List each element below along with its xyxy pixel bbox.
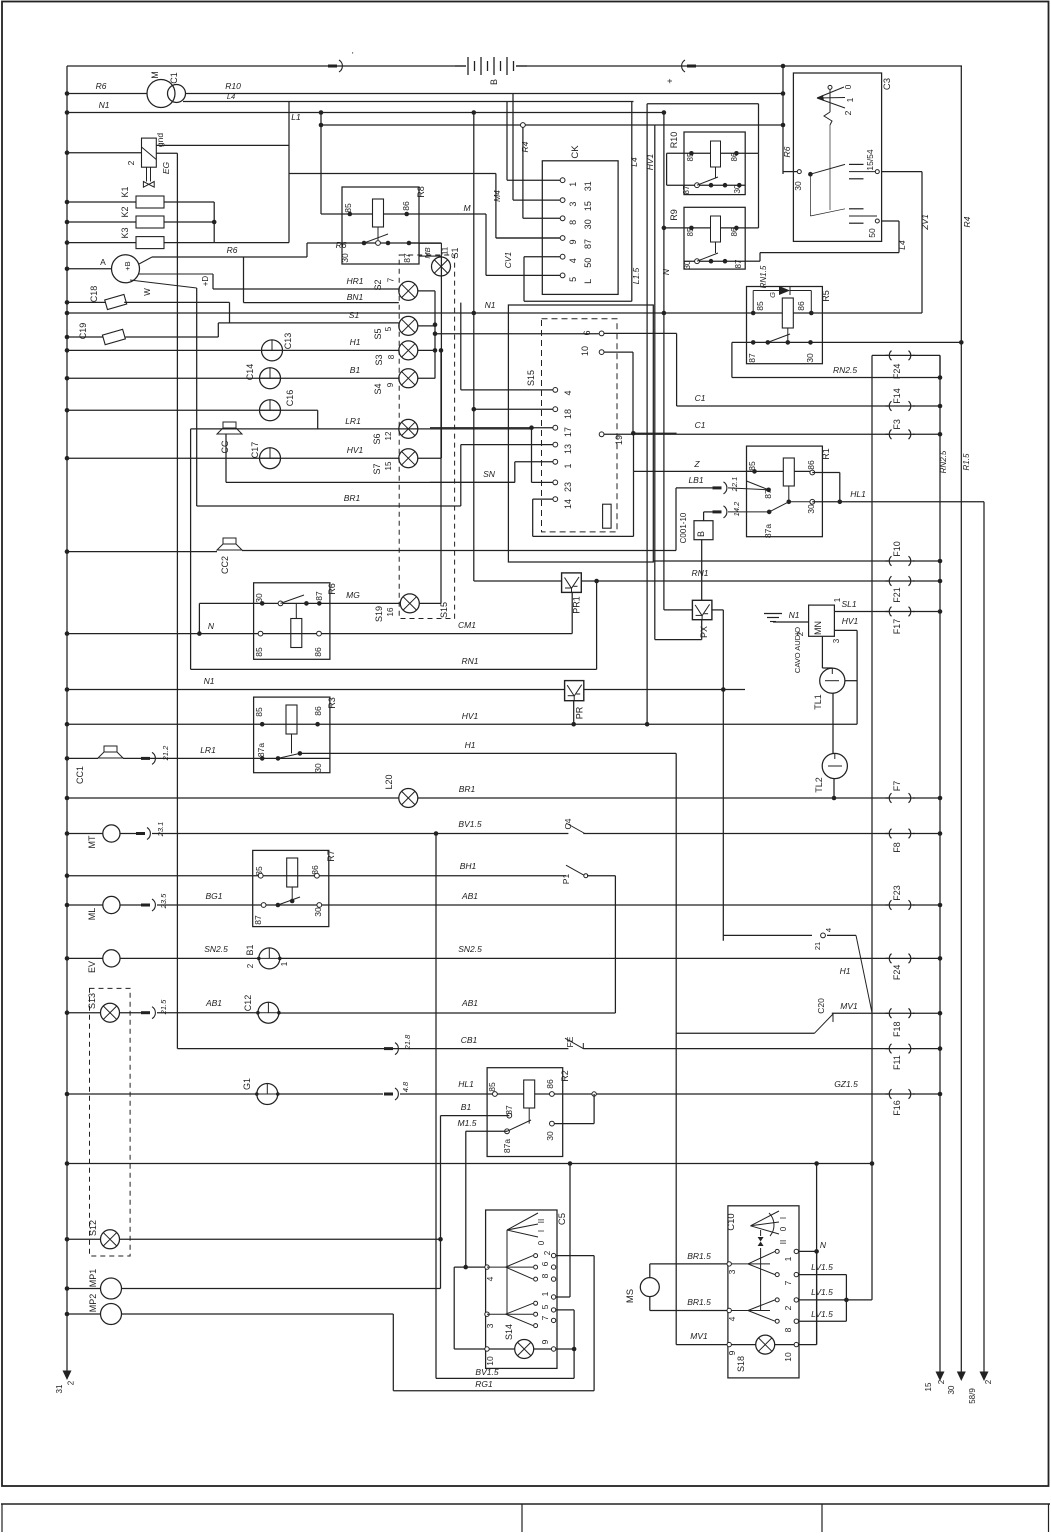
relay R5 bbox=[747, 287, 823, 364]
wire LB1 jog riser bbox=[675, 488, 677, 551]
node S15 pin23 bbox=[553, 480, 558, 485]
wire CB1 row bbox=[177, 1048, 568, 1050]
svg-text:CB1: CB1 bbox=[461, 1035, 478, 1045]
resistor K1 bbox=[65, 200, 70, 205]
node CK pin 1/31 bbox=[560, 178, 565, 183]
wire SN row bbox=[226, 481, 515, 483]
wire R8-85 feed bbox=[321, 213, 342, 215]
wire MV1 to pin9 bbox=[676, 1344, 727, 1346]
svg-text:31: 31 bbox=[55, 1384, 64, 1393]
wire CC2 to LB1 riser bbox=[242, 550, 676, 552]
svg-text:H1: H1 bbox=[350, 337, 361, 347]
wire BN1 riser from R6 bbox=[243, 257, 245, 303]
wire HV1 riser top corner bbox=[647, 103, 758, 105]
node CK pin 5/L bbox=[560, 273, 565, 278]
svg-text:C14: C14 bbox=[245, 364, 255, 381]
svg-text:R4: R4 bbox=[520, 141, 530, 152]
svg-text:87: 87 bbox=[747, 353, 757, 363]
wire pin14 riser bbox=[532, 499, 534, 536]
svg-text:L1.5: L1.5 bbox=[631, 267, 641, 284]
svg-text:AB1: AB1 bbox=[461, 998, 478, 1008]
dashed box instrument S15 bbox=[399, 255, 454, 619]
wire N1 riser to PR1 bbox=[474, 580, 562, 582]
node S15 pin1 bbox=[553, 459, 558, 464]
svg-text:R2: R2 bbox=[560, 1070, 570, 1082]
wire G1 HL1 row bbox=[65, 1092, 70, 1097]
svg-text:1: 1 bbox=[845, 97, 855, 102]
wire riser to C3 30 bbox=[782, 66, 784, 174]
svg-text:SN: SN bbox=[483, 469, 496, 479]
svg-text:C17: C17 bbox=[250, 442, 260, 459]
connector B1 bbox=[259, 948, 280, 969]
svg-text:14: 14 bbox=[563, 499, 573, 509]
svg-text:1: 1 bbox=[280, 961, 289, 966]
svg-text:F21: F21 bbox=[892, 587, 902, 603]
svg-text:9: 9 bbox=[568, 239, 578, 244]
wire L1 horizontal bbox=[321, 124, 783, 126]
svg-text:30: 30 bbox=[313, 907, 323, 917]
wire CM1 from PR1 bbox=[571, 592, 573, 633]
wire +D to HR1 bbox=[138, 273, 213, 275]
wire L4 from C1 bbox=[183, 101, 634, 103]
wire riser R4 right bbox=[960, 66, 962, 1372]
wire M1.5 riser bbox=[465, 1131, 467, 1267]
svg-text:N: N bbox=[820, 1240, 827, 1250]
wire R5-85 riser to RN2.5 bbox=[731, 342, 733, 377]
svg-text:I: I bbox=[779, 1217, 788, 1219]
svg-text:F8: F8 bbox=[892, 842, 902, 853]
svg-text:HV1: HV1 bbox=[462, 711, 479, 721]
svg-text:1: 1 bbox=[568, 182, 578, 187]
R7 switch row bbox=[261, 903, 266, 908]
svg-text:30: 30 bbox=[313, 763, 323, 773]
svg-text:R6: R6 bbox=[782, 146, 792, 157]
wire S15box bottom to F10 bbox=[653, 560, 888, 562]
fuse F24b bbox=[889, 954, 891, 964]
connector block CK bbox=[542, 161, 618, 295]
svg-text:3: 3 bbox=[727, 1269, 737, 1274]
svg-text:PR: PR bbox=[575, 706, 585, 719]
svg-text:L1: L1 bbox=[291, 112, 301, 122]
svg-text:17: 17 bbox=[563, 427, 573, 437]
wire CK pin8 feed bbox=[522, 125, 524, 218]
lamp S1 bbox=[432, 257, 451, 276]
svg-text:7: 7 bbox=[540, 1315, 550, 1320]
svg-text:C1: C1 bbox=[695, 420, 706, 430]
C3 blade lower bbox=[809, 174, 811, 216]
svg-text:87a: 87a bbox=[763, 524, 773, 538]
svg-text:87a: 87a bbox=[502, 1139, 512, 1153]
speaker CC1 bbox=[65, 756, 70, 761]
svg-text:S6: S6 bbox=[372, 433, 382, 444]
svg-text:S15: S15 bbox=[526, 370, 536, 386]
C10 lower switch bbox=[727, 1308, 731, 1312]
node S15 pin10 bbox=[599, 350, 604, 355]
svg-text:1: 1 bbox=[563, 463, 573, 468]
wire C5 pin1 out bbox=[556, 1296, 570, 1298]
wire HR1 bbox=[213, 288, 399, 290]
svg-text:HV1: HV1 bbox=[347, 445, 364, 455]
box in S15 bbox=[603, 504, 612, 528]
svg-text:N: N bbox=[208, 621, 215, 631]
svg-text:F16: F16 bbox=[892, 1100, 902, 1116]
wire HL1 row bbox=[812, 501, 984, 503]
node arrow 30/2 bbox=[957, 1372, 966, 1382]
svg-text:B: B bbox=[696, 531, 706, 537]
lamp S7 bbox=[399, 449, 418, 468]
svg-text:A: A bbox=[100, 257, 106, 267]
svg-text:30: 30 bbox=[545, 1131, 555, 1141]
svg-text:CC2: CC2 bbox=[220, 556, 230, 574]
svg-text:87: 87 bbox=[682, 185, 691, 194]
lamp S12 bbox=[65, 1237, 70, 1242]
wire LV1.5 pin7 bbox=[799, 1274, 847, 1276]
wire MP2 riser to RG1 bbox=[392, 1314, 394, 1391]
svg-text:SN2.5: SN2.5 bbox=[458, 944, 482, 954]
svg-text:F24: F24 bbox=[892, 965, 902, 981]
wire BN1 riser bbox=[460, 303, 462, 390]
wire N1 row3 bbox=[65, 687, 70, 692]
wire riser LR1-RN1 x190 bbox=[190, 429, 192, 670]
dashed connector S15 bbox=[542, 319, 618, 532]
svg-text:2: 2 bbox=[796, 631, 805, 636]
wire pin4-pin10 link bbox=[453, 1267, 455, 1349]
relay R8 bbox=[342, 187, 419, 264]
svg-text:R6: R6 bbox=[96, 81, 107, 91]
diode PR1 bbox=[562, 573, 582, 593]
svg-text:LV1.5: LV1.5 bbox=[811, 1262, 833, 1272]
switch C20 bbox=[815, 1014, 834, 1033]
svg-text:CC: CC bbox=[220, 440, 230, 453]
svg-text:12: 12 bbox=[384, 431, 393, 440]
wire B1 row C14 bbox=[65, 376, 70, 381]
svg-text:31: 31 bbox=[583, 181, 593, 191]
svg-text:MN: MN bbox=[813, 621, 823, 635]
wire H1 diagonal to F18 bbox=[723, 934, 812, 936]
svg-text:23.5: 23.5 bbox=[159, 893, 168, 909]
svg-text:B1: B1 bbox=[245, 944, 255, 955]
svg-text:50: 50 bbox=[867, 228, 877, 238]
node CK pin 3/15 bbox=[560, 198, 565, 203]
connector block C5 bbox=[486, 1210, 557, 1368]
svg-text:2: 2 bbox=[984, 1379, 993, 1384]
svg-text:H1: H1 bbox=[840, 966, 851, 976]
svg-text:7: 7 bbox=[783, 1280, 793, 1285]
wire B1 into R2-87 bbox=[441, 1115, 510, 1117]
svg-text:RN1: RN1 bbox=[461, 656, 478, 666]
wire MN pin3 down bbox=[821, 636, 823, 668]
svg-text:2: 2 bbox=[126, 160, 136, 165]
svg-text:S19: S19 bbox=[374, 606, 384, 622]
wire S2 to riser bbox=[418, 290, 435, 292]
wire M4 riser to CK9 bbox=[495, 174, 497, 239]
svg-text:4: 4 bbox=[485, 1276, 495, 1281]
svg-text:FE: FE bbox=[565, 1036, 575, 1047]
svg-text:14.2: 14.2 bbox=[732, 501, 741, 516]
wire L4 riser bbox=[631, 102, 633, 302]
wire BR1 mid bbox=[197, 505, 461, 507]
lamp S2 bbox=[399, 281, 418, 300]
svg-text:2: 2 bbox=[843, 110, 853, 115]
svg-text:2: 2 bbox=[246, 963, 255, 968]
wire PX left to N riser bbox=[664, 609, 693, 611]
lamp S6 bbox=[399, 419, 418, 438]
svg-text:15: 15 bbox=[924, 1382, 933, 1391]
svg-text:C12: C12 bbox=[243, 995, 253, 1012]
svg-text:R6: R6 bbox=[327, 583, 337, 595]
svg-text:HV1: HV1 bbox=[842, 616, 859, 626]
svg-text:87a: 87a bbox=[256, 743, 266, 757]
svg-text:HL1: HL1 bbox=[850, 489, 866, 499]
wire MS to pin3 bbox=[649, 1264, 651, 1278]
svg-text:LV1.5: LV1.5 bbox=[811, 1309, 833, 1319]
svg-text:3: 3 bbox=[832, 638, 841, 643]
svg-text:P1: P1 bbox=[561, 874, 571, 885]
svg-text:R6: R6 bbox=[227, 245, 238, 255]
wire RG1 riser bbox=[593, 1256, 595, 1391]
svg-text:1: 1 bbox=[783, 1256, 793, 1261]
connector G1 bbox=[257, 1084, 278, 1105]
svg-text:86: 86 bbox=[545, 1079, 555, 1089]
lamp TL1 bbox=[820, 668, 845, 693]
relay R1 bbox=[747, 446, 823, 537]
relay R7 bbox=[253, 850, 329, 926]
svg-text:S1: S1 bbox=[349, 310, 360, 320]
node S15 pin6 bbox=[599, 331, 604, 336]
wire R3 switch row bbox=[254, 757, 330, 759]
svg-text:30: 30 bbox=[583, 219, 593, 229]
fuse F8 bbox=[889, 829, 891, 839]
wire L20 BR1 row bbox=[65, 796, 70, 801]
wire PR1 out RN1 bbox=[581, 580, 888, 582]
svg-text:TL1: TL1 bbox=[813, 694, 823, 710]
node CK pin 8/30 bbox=[560, 216, 565, 221]
svg-text:S7: S7 bbox=[372, 463, 382, 474]
svg-text:W: W bbox=[143, 288, 152, 296]
wire R9-86 loop right bbox=[745, 227, 758, 229]
fuse F11 bbox=[889, 1044, 891, 1054]
wire N CM1 row bbox=[65, 631, 70, 636]
C5 lower switch bbox=[485, 1312, 489, 1316]
wire MV1 row bbox=[676, 1032, 814, 1034]
svg-text:LV1.5: LV1.5 bbox=[811, 1287, 833, 1297]
svg-text:8: 8 bbox=[540, 1273, 550, 1278]
wire RN1 left branch bbox=[596, 581, 598, 669]
wire Z to R1-85 bbox=[634, 470, 755, 472]
svg-text:MS: MS bbox=[625, 1289, 636, 1303]
wire gnd to L4 riser bbox=[156, 144, 289, 146]
lamp S4 bbox=[399, 369, 418, 388]
wire LR1 row2 bbox=[123, 757, 254, 759]
svg-text:+D: +D bbox=[201, 276, 210, 287]
svg-text:16: 16 bbox=[386, 607, 395, 616]
wire top bus bbox=[67, 65, 466, 67]
fuse F14 bbox=[889, 401, 891, 411]
fuse F21 bbox=[889, 576, 891, 586]
svg-text:F3: F3 bbox=[892, 419, 902, 430]
wire ZV1 riser bbox=[921, 172, 923, 313]
node S15 pin17 bbox=[553, 425, 558, 430]
svg-text:0: 0 bbox=[537, 1240, 546, 1245]
wire BN1 bbox=[244, 302, 399, 304]
svg-text:HR1: HR1 bbox=[346, 276, 363, 286]
wire to S15 pin6 bbox=[433, 331, 438, 336]
svg-text:8: 8 bbox=[568, 220, 578, 225]
lamp S19 bbox=[400, 594, 419, 613]
wire C1 row1 bbox=[633, 432, 676, 434]
wire CK pin9 feed horizontal bbox=[289, 173, 496, 175]
wire PX top riser bbox=[701, 539, 703, 600]
wire left bus bbox=[66, 66, 68, 1371]
wire N riser to C10 bbox=[816, 1164, 818, 1345]
wire CK pin9 feed bbox=[496, 237, 560, 239]
wire S1 row bbox=[230, 322, 399, 324]
wire LV1.5 pin8 bbox=[799, 1320, 847, 1322]
wire fuse feed bus x872 bbox=[871, 355, 873, 1300]
ignition switch C3 bbox=[793, 73, 881, 241]
wire B1 riser bbox=[440, 1116, 442, 1289]
connector block C10 bbox=[728, 1206, 799, 1378]
svg-text:85: 85 bbox=[254, 647, 264, 657]
node CK pin 9/87 bbox=[560, 236, 565, 241]
svg-text:R1.5: R1.5 bbox=[962, 453, 971, 470]
fuse F24 bbox=[872, 354, 889, 356]
wire Z riser bbox=[633, 433, 635, 471]
svg-text:87: 87 bbox=[734, 259, 743, 268]
svg-text:C1: C1 bbox=[695, 393, 706, 403]
wire pin10 riser bbox=[799, 1344, 817, 1346]
wire S19 riser bbox=[440, 458, 442, 603]
svg-text:2: 2 bbox=[783, 1305, 793, 1310]
wire R10 from C1 bbox=[186, 93, 784, 95]
svg-text:BG1: BG1 bbox=[205, 891, 222, 901]
fuse F10 bbox=[889, 556, 891, 566]
svg-text:S1: S1 bbox=[450, 247, 460, 258]
svg-text:1: 1 bbox=[540, 1291, 550, 1296]
svg-text:M1.5: M1.5 bbox=[458, 1118, 477, 1128]
svg-text:N: N bbox=[661, 268, 671, 275]
wire R10-86 to loop bbox=[745, 152, 758, 154]
wire riser L1 from N1 bbox=[320, 113, 322, 215]
connector C12 bbox=[258, 1002, 279, 1023]
svg-text:S5: S5 bbox=[373, 328, 383, 339]
connector C13 bbox=[262, 340, 283, 361]
svg-text:BR1.5: BR1.5 bbox=[687, 1297, 711, 1307]
svg-text:F24: F24 bbox=[892, 364, 902, 380]
node arrow 58/9 bbox=[980, 1372, 989, 1382]
lamp TL2 bbox=[832, 693, 834, 753]
wire MS to pin4 bbox=[649, 1297, 651, 1311]
relay R9 bbox=[684, 207, 745, 269]
svg-text:AB1: AB1 bbox=[461, 891, 478, 901]
wire Z lower tail bbox=[633, 471, 635, 536]
wire LR1 row bbox=[191, 428, 532, 430]
svg-text:86: 86 bbox=[806, 460, 816, 470]
wire PR tap to HV1 bbox=[573, 701, 575, 725]
wire M1.5 into R2-87a bbox=[466, 1130, 507, 1132]
connector B C001-10 bbox=[694, 521, 713, 540]
connector C14 bbox=[260, 368, 281, 389]
wire CK pin1 feed bbox=[506, 102, 508, 181]
wire gnd out to CB1 riser bbox=[156, 152, 177, 154]
svg-text:S18: S18 bbox=[736, 1356, 746, 1372]
wire riser x289 bbox=[288, 102, 290, 174]
wire S13 AB1 row bbox=[65, 1010, 70, 1015]
svg-text:15: 15 bbox=[583, 201, 593, 211]
svg-text:MB: MB bbox=[423, 247, 432, 258]
C10 diode bbox=[760, 1230, 762, 1236]
wire R9-85 to N riser bbox=[664, 227, 684, 229]
svg-text:K1: K1 bbox=[120, 186, 130, 197]
svg-text:R7: R7 bbox=[326, 850, 336, 862]
svg-text:G: G bbox=[768, 292, 777, 298]
svg-text:23.1: 23.1 bbox=[156, 822, 165, 838]
svg-text:MP2: MP2 bbox=[88, 1294, 98, 1313]
wire BR1 to F7 bbox=[418, 797, 889, 799]
lamp S5 bbox=[399, 316, 418, 335]
wire riser pin6 to F14 bbox=[676, 333, 678, 406]
wire RN2.5 bbox=[732, 377, 940, 379]
wire R6b-30 left bbox=[199, 602, 253, 604]
svg-text:L: L bbox=[583, 279, 593, 284]
svg-text:R9: R9 bbox=[669, 209, 679, 221]
wire riser x676 H1-MV1 bbox=[675, 753, 677, 1344]
wire K common riser bbox=[213, 202, 215, 243]
svg-text:ZV1: ZV1 bbox=[920, 214, 930, 231]
svg-text:5: 5 bbox=[540, 1304, 550, 1309]
svg-text:3: 3 bbox=[485, 1323, 495, 1328]
wire SN riser from CC bbox=[225, 434, 227, 482]
svg-text:21: 21 bbox=[813, 942, 822, 950]
svg-text:21.8: 21.8 bbox=[403, 1034, 412, 1050]
svg-text:+: + bbox=[665, 78, 675, 83]
wire MG bbox=[330, 602, 400, 604]
svg-text:30: 30 bbox=[947, 1385, 956, 1394]
svg-text:II: II bbox=[537, 1219, 546, 1223]
wire C5 pin2 out bbox=[556, 1255, 594, 1257]
wire L4 loop bottom bbox=[524, 300, 632, 302]
connector C16 bbox=[260, 400, 281, 421]
wire LV1.5 pin2 bbox=[799, 1299, 873, 1301]
svg-text:85: 85 bbox=[747, 461, 757, 471]
svg-text:87: 87 bbox=[253, 915, 263, 925]
svg-text:R8: R8 bbox=[416, 186, 426, 198]
wire N out pin1 bbox=[799, 1250, 817, 1252]
wire ML row bbox=[65, 903, 70, 908]
wire RG1 row bbox=[393, 1390, 594, 1392]
svg-text:CM1: CM1 bbox=[458, 620, 476, 630]
svg-text:C16: C16 bbox=[285, 390, 295, 407]
svg-text:AB1: AB1 bbox=[205, 998, 222, 1008]
node left-bus arrow 31/2 bbox=[63, 1371, 72, 1381]
ground symbol bbox=[764, 613, 782, 615]
svg-text:86: 86 bbox=[310, 865, 320, 875]
svg-text:4: 4 bbox=[563, 390, 573, 395]
svg-text:B1: B1 bbox=[350, 365, 361, 375]
wire W riser to BR1 bbox=[130, 280, 197, 288]
svg-text:RN1: RN1 bbox=[691, 568, 708, 578]
svg-text:C18: C18 bbox=[89, 286, 99, 303]
node S15 pin19 bbox=[599, 432, 604, 437]
svg-text:85: 85 bbox=[755, 301, 765, 311]
wire PX right bbox=[712, 609, 723, 611]
svg-text:87: 87 bbox=[402, 253, 412, 263]
wire C3 15/54 out to ZV1 bbox=[882, 171, 922, 173]
svg-text:RN2.5: RN2.5 bbox=[833, 365, 857, 375]
motor M C1 bbox=[147, 80, 175, 108]
wire R10-86 loop bbox=[758, 104, 760, 154]
svg-text:C1: C1 bbox=[169, 72, 179, 84]
